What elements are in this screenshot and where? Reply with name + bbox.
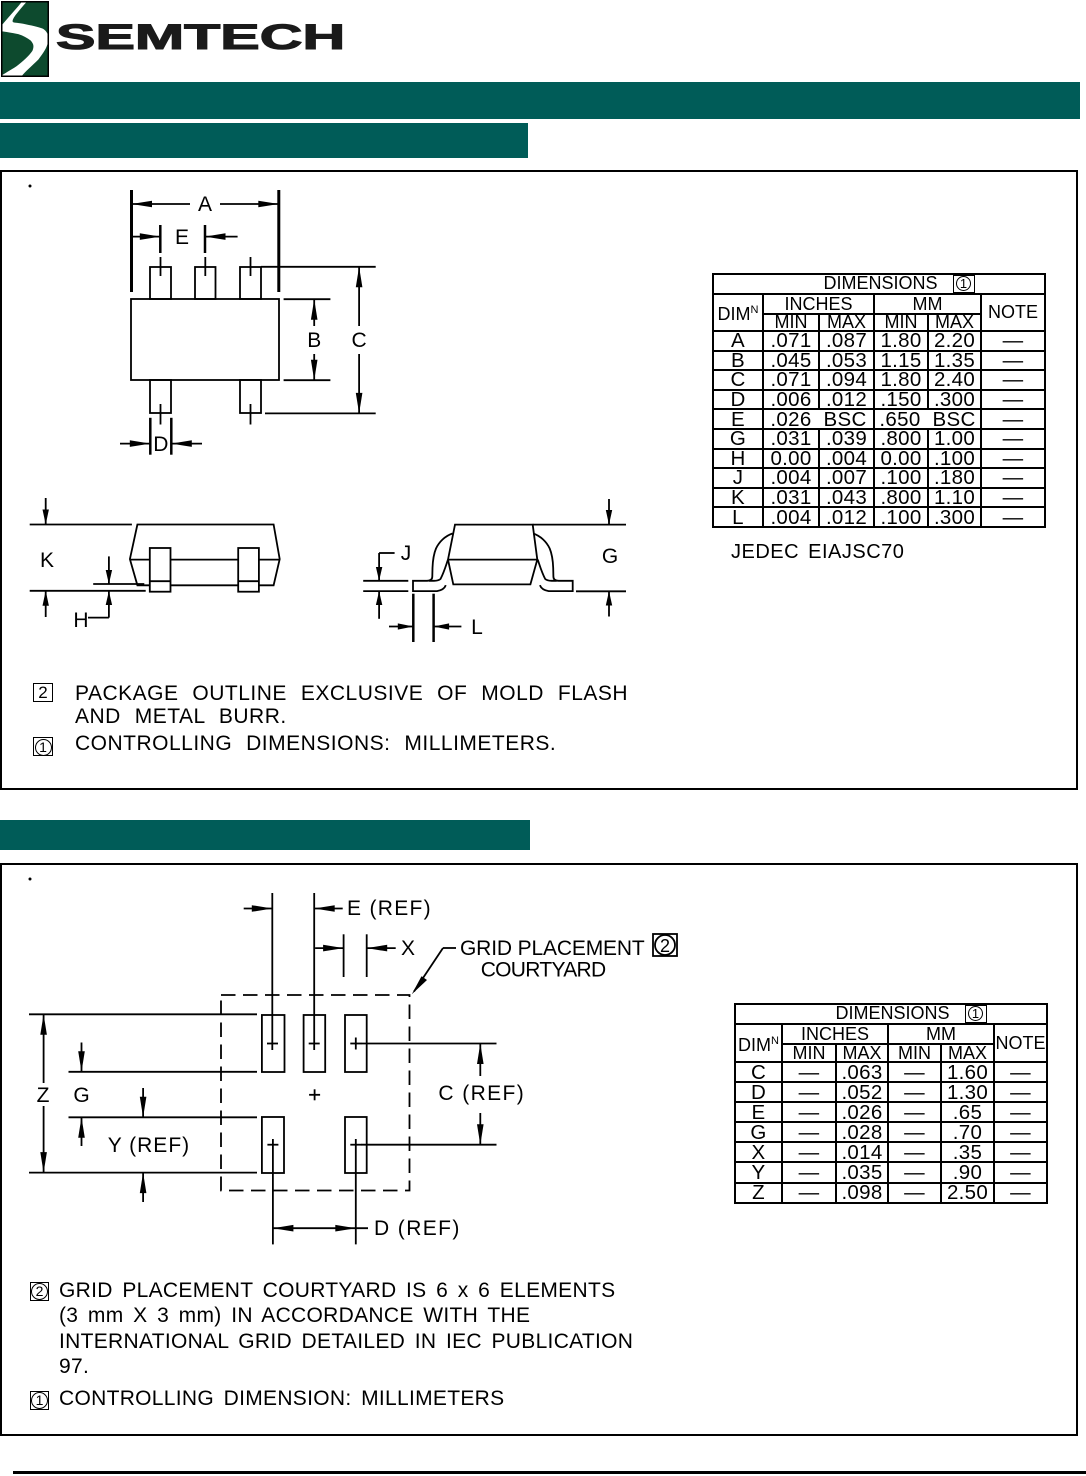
Semtech logo mark	[1, 1, 49, 77]
dim H up arrow	[108, 591, 110, 618]
package outline drawing box	[0, 170, 1078, 790]
svg-text:L: L	[471, 616, 483, 639]
side view left: bottom ref line	[30, 590, 146, 592]
SEMTECH wordmark	[56, 18, 345, 58]
note 2 text (land pattern)	[59, 1278, 633, 1380]
dim G arrows	[81, 1043, 83, 1072]
pad cross marks bottom	[267, 1144, 278, 1146]
leader to courtyard	[443, 947, 456, 949]
dim H segment	[93, 583, 144, 585]
land pad top 3	[345, 1015, 367, 1072]
dim J lines	[363, 580, 408, 582]
package body (side view left)	[130, 525, 280, 586]
note 2 box	[33, 683, 53, 702]
G ref bottom line	[576, 590, 626, 592]
D extension line left	[272, 1139, 274, 1244]
pad cross marks top	[267, 1043, 278, 1045]
dim G arrows	[608, 499, 610, 525]
note 1 box (land pattern)	[30, 1391, 49, 1410]
side view left: top ref line	[30, 524, 132, 526]
stray dot	[29, 878, 32, 881]
Z top ref line	[29, 1013, 257, 1015]
top pin 1	[150, 267, 171, 299]
JEDEC note	[731, 541, 904, 564]
teal bar full width	[0, 82, 1080, 119]
dim A right tick	[277, 190, 280, 292]
side lead 2	[238, 548, 259, 592]
dim E(REF) arrows	[244, 908, 273, 910]
package body (top view)	[131, 299, 279, 380]
D extension line right	[355, 1139, 357, 1244]
pin centerline ticks bottom	[160, 404, 162, 425]
teal bar short	[0, 123, 528, 158]
bottom rule	[13, 1471, 1086, 1474]
note 2 box (land pattern)	[30, 1282, 49, 1301]
svg-text:A: A	[198, 193, 212, 216]
bottom pin 2	[240, 380, 261, 413]
dim A line	[132, 203, 191, 205]
dim X arrows	[315, 947, 344, 949]
svg-text:G: G	[602, 545, 618, 568]
B extension lines	[284, 298, 331, 300]
svg-text:H: H	[73, 609, 88, 632]
dim B arrow	[313, 299, 315, 326]
lead shoulder line	[130, 559, 280, 561]
svg-text:X: X	[401, 937, 415, 960]
gull-wing lead right	[533, 534, 573, 592]
grid placement courtyard (dashed)	[221, 995, 410, 1191]
dim E arrows	[130, 236, 160, 238]
SVG drawing: package outline views	[0, 170, 1078, 790]
svg-text:D (REF): D (REF)	[374, 1217, 461, 1240]
svg-text:Y (REF): Y (REF)	[108, 1134, 190, 1157]
dim D(REF) line and arrows	[273, 1227, 368, 1229]
land pad top 2	[304, 1015, 326, 1072]
dim Y arrows	[142, 1088, 144, 1117]
dim X ticks	[343, 934, 345, 977]
dimensions table 1	[712, 273, 1046, 528]
side view right: body hexagon	[448, 525, 537, 585]
C extension top line	[261, 266, 376, 268]
svg-text:J: J	[401, 542, 412, 565]
dim C(REF) arrows	[479, 1044, 481, 1077]
C(REF) bottom ref line	[361, 1144, 497, 1146]
gull-wing lead left	[413, 534, 453, 592]
dim E ticks	[159, 225, 162, 253]
svg-text:C (REF): C (REF)	[438, 1082, 525, 1105]
dim L arrows	[389, 626, 413, 628]
top pin 3	[240, 267, 261, 299]
svg-text:E: E	[175, 226, 189, 249]
side lead 1	[150, 548, 171, 592]
svg-text:B: B	[307, 329, 321, 352]
note 1 text	[75, 732, 556, 755]
bottom pin 1	[150, 380, 171, 413]
stray dot	[29, 185, 32, 188]
dimensions table 2	[734, 1003, 1048, 1204]
svg-text:D: D	[153, 433, 168, 456]
dim A left tick	[130, 190, 133, 292]
Z bottom ref line	[29, 1172, 257, 1174]
note ref box 2	[653, 934, 677, 956]
note 1 box	[33, 737, 53, 756]
land pad top 1	[262, 1015, 285, 1072]
G lower ref line	[69, 1116, 258, 1118]
teal bar short 2	[0, 820, 530, 850]
dim K arrows	[45, 498, 47, 525]
svg-text:K: K	[40, 549, 54, 572]
dim Z arrows	[43, 1014, 45, 1083]
pad1 centerline	[271, 893, 273, 1050]
dim D arrows	[120, 443, 150, 445]
land pad bottom 2	[345, 1117, 367, 1173]
land pad bottom 1	[262, 1117, 284, 1173]
center cross	[309, 1094, 320, 1096]
pin centerline ticks top	[160, 257, 162, 276]
G ref top line	[533, 524, 626, 526]
C(REF) top ref line	[361, 1043, 497, 1045]
svg-text:2: 2	[660, 936, 670, 956]
dim D ticks	[149, 418, 152, 455]
svg-text:E (REF): E (REF)	[347, 897, 432, 920]
dim J elbow and arrows	[379, 552, 395, 554]
note 1 text (land pattern)	[59, 1387, 504, 1410]
svg-text:C: C	[352, 329, 367, 352]
svg-text:G: G	[73, 1084, 89, 1107]
land pattern drawing box	[0, 863, 1078, 1436]
C extension bottom line	[265, 412, 376, 414]
SVG drawing: land pattern	[0, 863, 1078, 1436]
svg-text:GRID PLACEMENT: GRID PLACEMENT	[460, 937, 645, 960]
note 2 text	[75, 682, 628, 728]
dim C arrow	[358, 267, 360, 326]
body mid line	[448, 559, 537, 561]
dim L ticks	[412, 594, 415, 642]
dim H down arrow	[108, 556, 110, 584]
svg-text:Z: Z	[37, 1084, 50, 1107]
svg-text:COURTYARD: COURTYARD	[481, 959, 606, 982]
G upper ref line	[69, 1071, 258, 1073]
top pin 2	[195, 267, 216, 299]
pad2 centerline	[313, 893, 315, 1050]
